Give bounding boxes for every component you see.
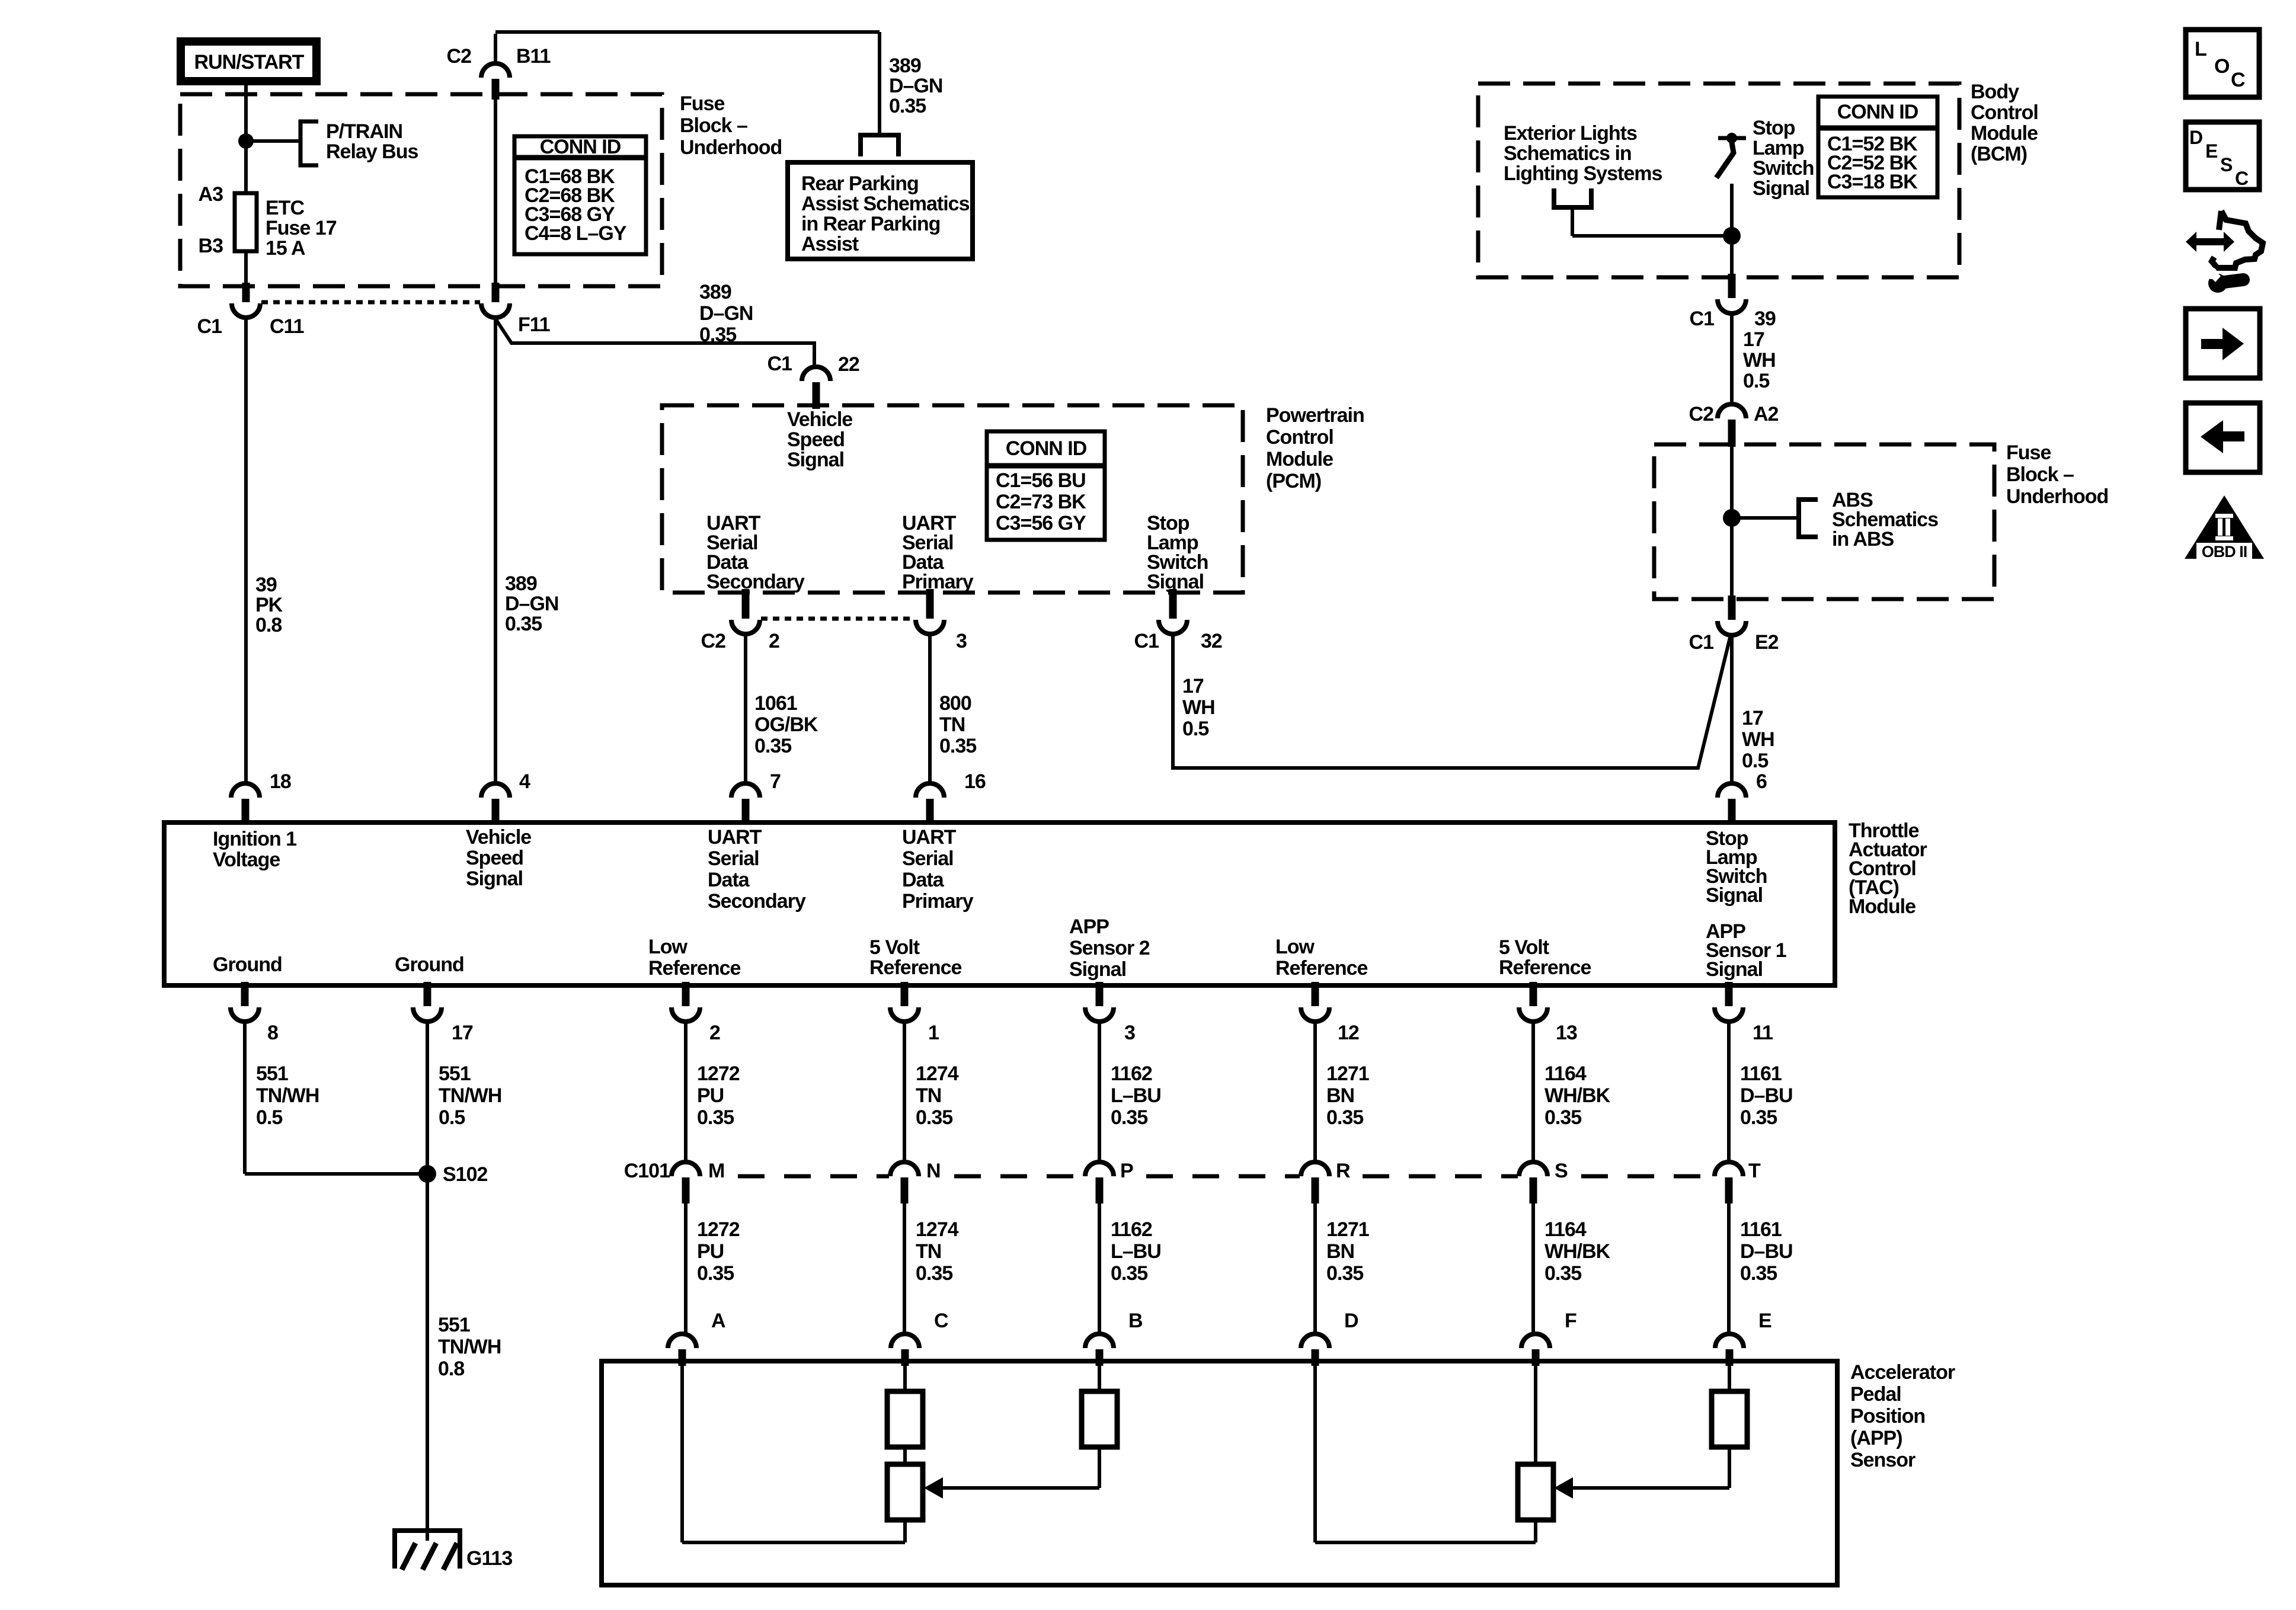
wire 1162 C101 to APP: [1098, 1204, 1101, 1335]
svg-text:TN: TN: [916, 1240, 941, 1263]
svg-text:Signal: Signal: [1706, 958, 1763, 981]
svg-text:1164: 1164: [1544, 1218, 1587, 1241]
svg-text:S: S: [1555, 1160, 1568, 1182]
svg-text:0.5: 0.5: [256, 1106, 282, 1129]
node exterior lights bracket: [1554, 188, 1591, 236]
connector APP pin D: [1301, 1310, 1358, 1366]
svg-text:Primary: Primary: [902, 890, 974, 913]
svg-text:B: B: [1128, 1310, 1143, 1332]
svg-text:C2: C2: [701, 630, 726, 652]
svg-text:Underhood: Underhood: [2006, 485, 2108, 508]
svg-text:0.35: 0.35: [1544, 1106, 1581, 1129]
svg-text:11: 11: [1753, 1022, 1773, 1044]
connector C101 pin M: [671, 1160, 724, 1204]
svg-text:WH/BK: WH/BK: [1544, 1240, 1611, 1263]
node CONN ID table (BCM): [1818, 97, 1937, 197]
wire connector pair line 2-3: [761, 617, 914, 621]
wire 17 WH stop lamp run to E2: [1173, 632, 1731, 768]
connector TAC pin 7: [731, 770, 781, 825]
wire RUN/START to fuse: [244, 85, 248, 193]
value label 1162 L–BU 0.35 (lower): [1111, 1218, 1161, 1285]
connector F11 in-line: [481, 283, 550, 336]
svg-text:APP: APP: [1069, 916, 1109, 938]
icon OBD II triangle: [2185, 495, 2264, 561]
svg-text:G113: G113: [466, 1547, 512, 1570]
connector TAC pin 12: [1301, 982, 1359, 1044]
svg-text:7: 7: [770, 770, 781, 793]
svg-text:R: R: [1336, 1160, 1350, 1182]
svg-text:Speed: Speed: [787, 428, 845, 451]
value label 17 WH 0.5 (lower right): [1742, 707, 1774, 772]
value label 1271 BN 0.35 (lower): [1326, 1218, 1369, 1285]
connector C101 pin R: [1301, 1160, 1350, 1204]
svg-text:Relay Bus: Relay Bus: [326, 140, 418, 163]
svg-text:2: 2: [709, 1022, 720, 1044]
value label 1271 BN 0.35 (upper): [1326, 1062, 1369, 1129]
svg-text:C1: C1: [768, 353, 792, 375]
node junction dot BCM: [1723, 227, 1741, 245]
svg-text:(PCM): (PCM): [1266, 470, 1321, 492]
connector C101 pin P: [1085, 1160, 1133, 1204]
svg-text:C: C: [2235, 168, 2249, 189]
svg-text:C2: C2: [1689, 403, 1714, 425]
node RUN/START voltage tag: [181, 41, 316, 81]
svg-text:Control: Control: [1266, 426, 1334, 449]
svg-text:22: 22: [838, 353, 859, 376]
svg-text:0.35: 0.35: [1544, 1262, 1581, 1285]
connector TAC pin 16: [916, 770, 986, 825]
node splice S102: [418, 1163, 487, 1186]
wire fuse to connector C1: [244, 251, 248, 284]
connector APP pin A: [668, 1310, 725, 1366]
svg-text:UART: UART: [708, 826, 762, 849]
value label 17 WH 0.5 (upper right): [1743, 328, 1776, 392]
svg-text:C3=18 BK: C3=18 BK: [1827, 171, 1918, 193]
sensor Accelerator Pedal Position (APP) Sensor label: [1850, 1361, 1955, 1471]
connector C2 / A2: [1689, 403, 1779, 447]
svg-text:A3: A3: [199, 183, 223, 206]
svg-text:12: 12: [1338, 1022, 1359, 1044]
svg-text:0.35: 0.35: [1740, 1262, 1777, 1285]
svg-text:Voltage: Voltage: [213, 849, 280, 871]
svg-text:Speed: Speed: [466, 847, 523, 869]
icon electrical diagnosis (arrow + wrench): [2186, 211, 2263, 293]
svg-text:Serial: Serial: [708, 847, 759, 870]
svg-text:Primary: Primary: [902, 571, 974, 593]
value label 389 D-GN 0.35 (column): [505, 572, 558, 635]
svg-text:C2=73 BK: C2=73 BK: [996, 491, 1086, 513]
svg-text:Fuse: Fuse: [680, 92, 724, 115]
svg-text:Block –: Block –: [2006, 463, 2074, 486]
svg-text:S: S: [2220, 154, 2233, 175]
value label 551 TN/WH 0.5 (pin 17): [439, 1062, 501, 1129]
svg-text:0.35: 0.35: [505, 613, 542, 635]
svg-text:1274: 1274: [916, 1218, 959, 1241]
svg-text:Sensor 2: Sensor 2: [1069, 937, 1150, 959]
svg-text:1161: 1161: [1740, 1062, 1782, 1085]
svg-text:Secondary: Secondary: [708, 890, 806, 913]
svg-text:C1: C1: [1690, 308, 1715, 330]
svg-text:1271: 1271: [1326, 1062, 1369, 1085]
svg-text:5 Volt: 5 Volt: [869, 936, 920, 959]
svg-text:389: 389: [505, 572, 537, 595]
svg-text:0.8: 0.8: [438, 1358, 464, 1380]
node CONN ID table (PCM): [987, 431, 1105, 540]
connector C101 pin S: [1519, 1160, 1568, 1204]
svg-text:F: F: [1565, 1310, 1576, 1332]
svg-text:Pedal: Pedal: [1850, 1383, 1901, 1406]
resistor APP2 signal element: [1082, 1366, 1117, 1447]
svg-text:551: 551: [438, 1314, 470, 1336]
icon back arrow box: [2186, 403, 2260, 472]
sensor APP box: [602, 1361, 1837, 1585]
wire 1162 TAC to C101: [1098, 1019, 1101, 1161]
connector APP pin B: [1085, 1310, 1143, 1366]
svg-text:Block –: Block –: [680, 114, 747, 137]
svg-text:Vehicle: Vehicle: [466, 826, 531, 849]
wire BCM internal to junction: [1572, 234, 1732, 238]
value label 1161 D–BU 0.35 (upper): [1740, 1062, 1793, 1129]
svg-text:P/TRAIN: P/TRAIN: [326, 120, 402, 143]
svg-text:389: 389: [699, 281, 731, 303]
module Body Control Module (BCM) label: [1971, 81, 2038, 165]
svg-text:TN: TN: [939, 713, 965, 736]
svg-text:D–BU: D–BU: [1740, 1084, 1793, 1107]
svg-text:CONN ID: CONN ID: [1837, 101, 1918, 123]
svg-text:Low: Low: [1275, 936, 1315, 958]
svg-text:1061: 1061: [754, 692, 797, 715]
svg-text:Fuse: Fuse: [2006, 441, 2051, 464]
svg-text:0.5: 0.5: [1182, 718, 1208, 740]
connector C101 pin T: [1715, 1160, 1761, 1204]
svg-text:Data: Data: [902, 869, 945, 891]
net UART Serial Data Primary (PCM): [902, 512, 974, 593]
connector C1 / 22 (PCM vehicle speed): [768, 353, 859, 409]
svg-text:Module: Module: [1266, 448, 1333, 470]
net Vehicle Speed Signal (PCM): [787, 408, 852, 471]
svg-text:0.35: 0.35: [889, 95, 926, 117]
svg-text:WH: WH: [1743, 349, 1776, 372]
svg-text:Secondary: Secondary: [706, 571, 805, 593]
svg-text:Fuse 17: Fuse 17: [266, 217, 337, 239]
svg-text:TN/WH: TN/WH: [439, 1084, 501, 1107]
svg-text:1274: 1274: [916, 1062, 959, 1085]
svg-text:Signal: Signal: [1753, 177, 1809, 200]
node junction dot: [238, 133, 254, 149]
svg-text:O: O: [2214, 55, 2230, 78]
svg-text:PU: PU: [697, 1240, 724, 1263]
svg-text:TN/WH: TN/WH: [438, 1336, 501, 1358]
svg-text:39: 39: [255, 574, 277, 596]
svg-text:Ground: Ground: [395, 953, 464, 976]
connector TAC pin 13: [1519, 982, 1577, 1044]
wire between elements: [903, 1447, 907, 1464]
connector TAC pin 8: [231, 982, 278, 1044]
svg-text:Sensor: Sensor: [1850, 1449, 1916, 1471]
svg-text:Signal: Signal: [1069, 958, 1126, 981]
svg-text:Signal: Signal: [1706, 884, 1763, 907]
svg-text:TN/WH: TN/WH: [256, 1084, 319, 1107]
wire 389 D-GN down to TAC pin 4: [494, 315, 497, 785]
wire through right fuse block: [1730, 447, 1734, 597]
svg-text:Signal: Signal: [787, 449, 844, 471]
svg-text:C4=8 L–GY: C4=8 L–GY: [525, 222, 627, 245]
svg-text:Signal: Signal: [466, 868, 523, 890]
connector C1 / E2: [1689, 596, 1779, 654]
svg-text:2: 2: [769, 630, 779, 652]
svg-text:Lighting Systems: Lighting Systems: [1504, 162, 1662, 185]
svg-text:L: L: [2195, 38, 2207, 60]
svg-text:C: C: [2231, 69, 2245, 91]
wire 1271 TAC to C101: [1313, 1019, 1317, 1161]
wire 1161 C101 to APP: [1727, 1204, 1731, 1335]
value label 551 TN/WH 0.5 (pin 8): [256, 1062, 319, 1129]
svg-text:5 Volt: 5 Volt: [1499, 936, 1549, 959]
resistor APP2 upper element: [887, 1366, 923, 1447]
wire 339 from B11 top run: [495, 32, 880, 133]
connector C1 / 39 (BCM): [1690, 274, 1776, 330]
svg-text:551: 551: [439, 1062, 471, 1085]
value label 17 WH 0.5 (stop lamp): [1182, 675, 1215, 740]
connector TAC pin 4: [481, 770, 530, 825]
svg-text:13: 13: [1556, 1022, 1577, 1044]
svg-text:0.5: 0.5: [1743, 370, 1769, 392]
net UART Serial Data Secondary (PCM): [706, 512, 805, 593]
svg-text:Rear Parking: Rear Parking: [801, 172, 919, 195]
svg-text:0.35: 0.35: [939, 735, 976, 757]
svg-text:Ignition 1: Ignition 1: [213, 828, 296, 850]
svg-text:32: 32: [1201, 630, 1222, 652]
wire 1272 TAC to C101: [684, 1019, 687, 1161]
connector C1 / C11 in-line: [197, 283, 304, 338]
net TAC top row labels: [213, 826, 1767, 913]
wire APP pin D low reference: [1315, 1366, 1536, 1542]
ground G113: [395, 1531, 512, 1570]
module BCM dashed box: [1478, 84, 1959, 277]
svg-text:3: 3: [1124, 1022, 1135, 1044]
value label 1274 TN 0.35 (lower): [916, 1218, 959, 1285]
svg-text:PK: PK: [255, 594, 283, 616]
svg-text:D: D: [1344, 1310, 1358, 1332]
value label 389 D-GN 0.35 (top): [889, 55, 942, 117]
svg-text:C101: C101: [624, 1160, 670, 1182]
connector APP pin F: [1521, 1310, 1576, 1366]
svg-text:0.35: 0.35: [754, 735, 791, 757]
svg-text:1164: 1164: [1544, 1062, 1587, 1085]
svg-text:0.35: 0.35: [916, 1262, 952, 1285]
svg-text:C3=56 GY: C3=56 GY: [996, 512, 1086, 534]
svg-text:Reference: Reference: [1499, 956, 1591, 979]
svg-text:C1: C1: [1689, 631, 1714, 654]
wire 389 branch F11 to PCM C1/22: [495, 319, 814, 369]
svg-text:0.5: 0.5: [439, 1106, 465, 1129]
node CONN ID table (fuse block): [514, 136, 646, 254]
svg-text:D–BU: D–BU: [1740, 1240, 1793, 1263]
svg-text:0.35: 0.35: [916, 1106, 952, 1129]
wire 1164 TAC to C101: [1531, 1019, 1535, 1161]
svg-text:Reference: Reference: [648, 957, 741, 980]
wire 1274 C101 to APP: [903, 1204, 906, 1335]
resistor APP1 signal element: [1712, 1366, 1747, 1447]
wire 551 TN/WH pin 17 to G113: [426, 1019, 429, 1541]
svg-text:0.35: 0.35: [699, 324, 736, 346]
svg-text:17: 17: [452, 1022, 473, 1044]
connector TAC pin 1: [890, 982, 939, 1044]
wire 1271 C101 to APP: [1313, 1204, 1317, 1335]
svg-text:17: 17: [1742, 707, 1763, 729]
svg-text:C1: C1: [1134, 630, 1159, 652]
svg-text:D–GN: D–GN: [505, 593, 558, 615]
svg-text:Data: Data: [708, 869, 750, 891]
svg-text:1272: 1272: [697, 1062, 740, 1085]
node ABS schematics bracket: [1799, 489, 1938, 550]
net Stop Lamp Switch Signal (BCM): [1753, 117, 1814, 200]
wire 1061 OG/BK to TAC pin 7: [744, 632, 747, 785]
wire connector pair line C1-F11: [261, 300, 480, 305]
svg-text:15 A: 15 A: [266, 237, 305, 260]
svg-text:0.35: 0.35: [697, 1106, 734, 1129]
svg-text:8: 8: [267, 1022, 278, 1044]
svg-text:Ground: Ground: [213, 953, 282, 976]
svg-text:551: 551: [256, 1062, 288, 1085]
connector TAC pin 3: [1085, 982, 1135, 1044]
value label 800 TN 0.35: [939, 692, 976, 757]
svg-text:UART: UART: [902, 826, 957, 849]
svg-text:0.5: 0.5: [1742, 750, 1768, 772]
svg-text:D–GN: D–GN: [699, 302, 753, 325]
module Throttle Actuator Control (TAC) Module label: [1849, 820, 1927, 918]
connector TAC pin 6: [1718, 770, 1767, 825]
connector TAC pin 2: [671, 982, 720, 1044]
svg-text:Module: Module: [1849, 895, 1916, 918]
fuse block underhood dashed box (right): [1654, 444, 1994, 599]
potentiometer APP1 wiper element: [1518, 1366, 1553, 1520]
fuse block underhood dashed box (left): [180, 94, 662, 286]
wire APP2 wiper arrow: [924, 1447, 1099, 1499]
connector C2 / 2 (PCM UART secondary): [701, 589, 779, 652]
node P/TRAIN Relay Bus tap: [300, 120, 418, 165]
wire APP pin A low reference: [682, 1366, 905, 1542]
svg-text:in Rear Parking: in Rear Parking: [801, 213, 940, 235]
svg-text:T: T: [1748, 1160, 1761, 1182]
svg-text:Powertrain: Powertrain: [1266, 404, 1364, 427]
value label 1272 PU 0.35 (lower): [697, 1218, 740, 1285]
value label 1162 L–BU 0.35 (upper): [1111, 1062, 1161, 1129]
wire 17 WH E2 to TAC pin 6: [1730, 633, 1734, 785]
net Fuse Block - Underhood label (right): [2006, 441, 2108, 508]
svg-text:M: M: [708, 1160, 724, 1182]
svg-text:CONN ID: CONN ID: [540, 136, 621, 158]
svg-text:1: 1: [928, 1022, 939, 1044]
node junction dot fuse block: [1723, 509, 1741, 527]
svg-text:389: 389: [889, 55, 921, 77]
connector C2 / B11: [447, 45, 551, 100]
wire 1161 TAC to C101: [1727, 1019, 1731, 1161]
svg-text:Reference: Reference: [869, 956, 962, 979]
connector TAC pin 18: [231, 770, 291, 825]
svg-text:BN: BN: [1326, 1240, 1354, 1263]
wire C101 connector dashed line: [738, 1174, 1713, 1179]
svg-text:Switch: Switch: [1753, 157, 1814, 180]
svg-text:(APP): (APP): [1850, 1427, 1902, 1449]
value label 551 TN/WH 0.8: [438, 1314, 501, 1380]
svg-text:A2: A2: [1754, 403, 1779, 425]
svg-text:C: C: [934, 1310, 948, 1332]
wire 800 TN to TAC pin 16: [928, 632, 932, 785]
connector 3 (PCM UART primary): [916, 589, 967, 652]
value label 1274 TN 0.35 (upper): [916, 1062, 959, 1129]
svg-text:0.35: 0.35: [697, 1262, 734, 1285]
svg-text:Module: Module: [1971, 122, 2038, 145]
svg-text:C1: C1: [197, 315, 222, 338]
svg-text:C2: C2: [447, 45, 472, 68]
connector C101 label: [624, 1160, 670, 1182]
svg-text:D–GN: D–GN: [889, 75, 942, 97]
svg-text:N: N: [926, 1160, 941, 1182]
connector TAC pin 11: [1715, 982, 1773, 1044]
svg-text:B3: B3: [199, 235, 223, 257]
wire 1164 C101 to APP: [1531, 1204, 1535, 1335]
svg-text:1272: 1272: [697, 1218, 740, 1241]
svg-text:L–BU: L–BU: [1111, 1240, 1161, 1263]
svg-text:L–BU: L–BU: [1111, 1084, 1161, 1107]
potentiometer APP2 wiper element: [887, 1464, 923, 1542]
connector C101 pin N: [890, 1160, 941, 1204]
module PCM dashed box: [662, 405, 1243, 593]
net Exterior Lights Schematics label: [1504, 122, 1662, 185]
svg-text:WH: WH: [1742, 728, 1774, 751]
svg-text:16: 16: [964, 770, 986, 793]
svg-text:39: 39: [1754, 308, 1776, 330]
connector APP pin C: [891, 1310, 948, 1366]
svg-text:0.35: 0.35: [1740, 1106, 1777, 1129]
svg-text:TN: TN: [916, 1084, 941, 1107]
connector APP pin E: [1715, 1310, 1771, 1366]
svg-text:Reference: Reference: [1275, 957, 1368, 980]
wire branch to P/TRAIN relay bus: [246, 139, 300, 143]
svg-text:Assist Schematics: Assist Schematics: [801, 193, 970, 215]
value label 1164 WH/BK 0.35 (upper): [1544, 1062, 1611, 1129]
svg-text:OG/BK: OG/BK: [754, 713, 818, 736]
net TAC bottom row labels: [213, 916, 1786, 981]
svg-text:1161: 1161: [1740, 1218, 1782, 1241]
wire 551 TN/WH pin 8 to S102: [245, 1019, 423, 1174]
svg-text:WH: WH: [1182, 696, 1215, 719]
svg-text:18: 18: [270, 770, 291, 793]
value label 1161 D–BU 0.35 (lower): [1740, 1218, 1793, 1285]
svg-text:Stop: Stop: [1753, 117, 1795, 139]
svg-text:Vehicle: Vehicle: [787, 408, 852, 431]
svg-text:in ABS: in ABS: [1832, 528, 1894, 550]
svg-text:Position: Position: [1850, 1405, 1925, 1427]
svg-text:Exterior Lights: Exterior Lights: [1504, 122, 1637, 145]
svg-text:RUN/START: RUN/START: [194, 51, 305, 73]
svg-text:Low: Low: [648, 936, 688, 958]
node rear parking assist bracket: [861, 135, 898, 156]
icon DESC box: [2186, 122, 2259, 190]
svg-text:800: 800: [939, 692, 971, 715]
svg-text:(BCM): (BCM): [1971, 143, 2027, 165]
svg-text:Lamp: Lamp: [1753, 137, 1804, 159]
wire 39 PK 0.8 to TAC pin 18: [244, 315, 248, 785]
value label 1272 PU 0.35 (upper): [697, 1062, 740, 1129]
fuse F17 ETC Fuse 17 15 A: [199, 183, 337, 260]
wire 17 WH BCM to A2: [1730, 311, 1734, 405]
svg-text:D: D: [2189, 127, 2202, 148]
svg-text:0.35: 0.35: [1111, 1106, 1147, 1129]
svg-text:E2: E2: [1755, 631, 1779, 654]
wire APP1 wiper arrow: [1554, 1447, 1729, 1499]
